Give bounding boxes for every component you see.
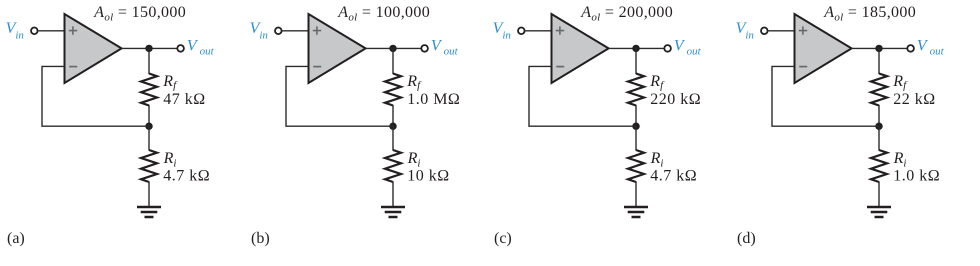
svg-text:Vout: Vout — [187, 37, 215, 57]
wire feedback junction to Ri (b) — [392, 126, 394, 150]
svg-text:(d): (d) — [737, 230, 756, 247]
wire output junction to Rf (c) — [635, 48, 637, 74]
node Vin terminal (a) — [31, 28, 38, 35]
wire op-amp output to Vout terminal (b) — [366, 47, 422, 49]
wire feedback junction to op-amp inverting input (c) — [529, 66, 636, 126]
svg-text:Vin: Vin — [250, 20, 269, 42]
svg-text:Vin: Vin — [736, 20, 755, 42]
ground (b) — [381, 207, 405, 217]
svg-text:47 kΩ: 47 kΩ — [163, 91, 205, 108]
op-amp U4 noninverting + pin mark — [799, 26, 807, 34]
ground (a) — [137, 207, 161, 217]
svg-text:(b): (b) — [251, 230, 270, 247]
wire Vin terminal to op-amp + input (b) — [282, 30, 309, 32]
svg-text:Aol = 185,000: Aol = 185,000 — [823, 4, 916, 24]
svg-text:Rf: Rf — [406, 73, 422, 92]
svg-text:1.0 MΩ: 1.0 MΩ — [407, 91, 460, 108]
svg-text:4.7 kΩ: 4.7 kΩ — [650, 167, 697, 184]
svg-text:Rf: Rf — [649, 73, 665, 92]
resistor Ri (d) — [871, 150, 887, 182]
op-amp U1 inverting - pin mark — [69, 66, 77, 68]
resistor Rf (a) — [141, 74, 157, 106]
svg-text:220 kΩ: 220 kΩ — [650, 91, 701, 108]
op-amp U3 noninverting + pin mark — [556, 26, 564, 34]
wire feedback junction to Ri (c) — [635, 126, 637, 150]
wire feedback junction to Ri (a) — [148, 126, 150, 150]
node output junction (a) — [145, 45, 152, 52]
op-amp U1 (a) — [65, 14, 122, 83]
wire op-amp output to Vout terminal (a) — [122, 47, 178, 49]
svg-text:(a): (a) — [7, 230, 25, 247]
svg-text:Vout: Vout — [431, 37, 459, 57]
ground (d) — [867, 207, 891, 217]
node output junction (d) — [875, 45, 882, 52]
resistor Rf (c) — [628, 74, 644, 106]
svg-text:1.0 kΩ: 1.0 kΩ — [893, 167, 940, 184]
wire Rf to feedback junction (d) — [878, 105, 880, 126]
op-amp U2 inverting - pin mark — [313, 66, 321, 68]
op-amp U2 noninverting + pin mark — [313, 26, 321, 34]
op-amp U1 noninverting + pin mark — [69, 26, 77, 34]
wire op-amp output to Vout terminal (d) — [852, 47, 908, 49]
wire output junction to Rf (d) — [878, 48, 880, 74]
svg-text:Aol = 200,000: Aol = 200,000 — [580, 4, 673, 24]
node output junction (c) — [632, 45, 639, 52]
node Vout terminal (c) — [664, 45, 671, 52]
wire Rf to feedback junction (c) — [635, 105, 637, 126]
op-amp U4 (d) — [795, 14, 852, 83]
node Vin terminal (d) — [761, 28, 768, 35]
op-amp U4 inverting - pin mark — [799, 66, 807, 68]
wire output junction to Rf (a) — [148, 48, 150, 74]
node feedback junction (d) — [875, 123, 882, 130]
wire Vin terminal to op-amp + input (c) — [525, 30, 552, 32]
wire Rf to feedback junction (b) — [392, 105, 394, 126]
node feedback junction (a) — [145, 123, 152, 130]
resistor Rf (b) — [385, 74, 401, 106]
node Vin terminal (c) — [518, 28, 525, 35]
resistor Rf (d) — [871, 74, 887, 106]
svg-text:Vout: Vout — [917, 37, 945, 57]
wire Vin terminal to op-amp + input (d) — [768, 30, 795, 32]
op-amp U3 (c) — [552, 14, 609, 83]
node Vin terminal (b) — [275, 28, 282, 35]
wire feedback junction to op-amp inverting input (a) — [42, 66, 149, 126]
wire Ri to ground (b) — [392, 182, 394, 208]
op-amp U3 inverting - pin mark — [556, 66, 564, 68]
wire op-amp output to Vout terminal (c) — [609, 47, 665, 49]
svg-text:Rf: Rf — [162, 73, 178, 92]
node output junction (b) — [389, 45, 396, 52]
svg-text:4.7 kΩ: 4.7 kΩ — [163, 167, 210, 184]
resistor Ri (c) — [628, 150, 644, 182]
svg-text:Vin: Vin — [493, 20, 512, 42]
wire Rf to feedback junction (a) — [148, 105, 150, 126]
wire Ri to ground (c) — [635, 182, 637, 208]
op-amp U2 (b) — [309, 14, 366, 83]
svg-text:Rf: Rf — [892, 73, 908, 92]
svg-text:Vin: Vin — [6, 20, 25, 42]
node Vout terminal (d) — [907, 45, 914, 52]
wire feedback junction to op-amp inverting input (b) — [286, 66, 393, 126]
wire Ri to ground (d) — [878, 182, 880, 208]
svg-text:(c): (c) — [494, 230, 512, 247]
wire feedback junction to op-amp inverting input (d) — [772, 66, 879, 126]
svg-text:Vout: Vout — [674, 37, 702, 57]
ground (c) — [624, 207, 648, 217]
resistor Ri (a) — [141, 150, 157, 182]
svg-text:Aol = 150,000: Aol = 150,000 — [93, 4, 186, 24]
resistor Ri (b) — [385, 150, 401, 182]
node feedback junction (c) — [632, 123, 639, 130]
node Vout terminal (b) — [421, 45, 428, 52]
svg-text:10 kΩ: 10 kΩ — [407, 167, 449, 184]
wire feedback junction to Ri (d) — [878, 126, 880, 150]
node Vout terminal (a) — [177, 45, 184, 52]
svg-text:22 kΩ: 22 kΩ — [893, 91, 935, 108]
wire Ri to ground (a) — [148, 182, 150, 208]
node feedback junction (b) — [389, 123, 396, 130]
wire Vin terminal to op-amp + input (a) — [38, 30, 65, 32]
svg-text:Aol = 100,000: Aol = 100,000 — [337, 4, 430, 24]
wire output junction to Rf (b) — [392, 48, 394, 74]
